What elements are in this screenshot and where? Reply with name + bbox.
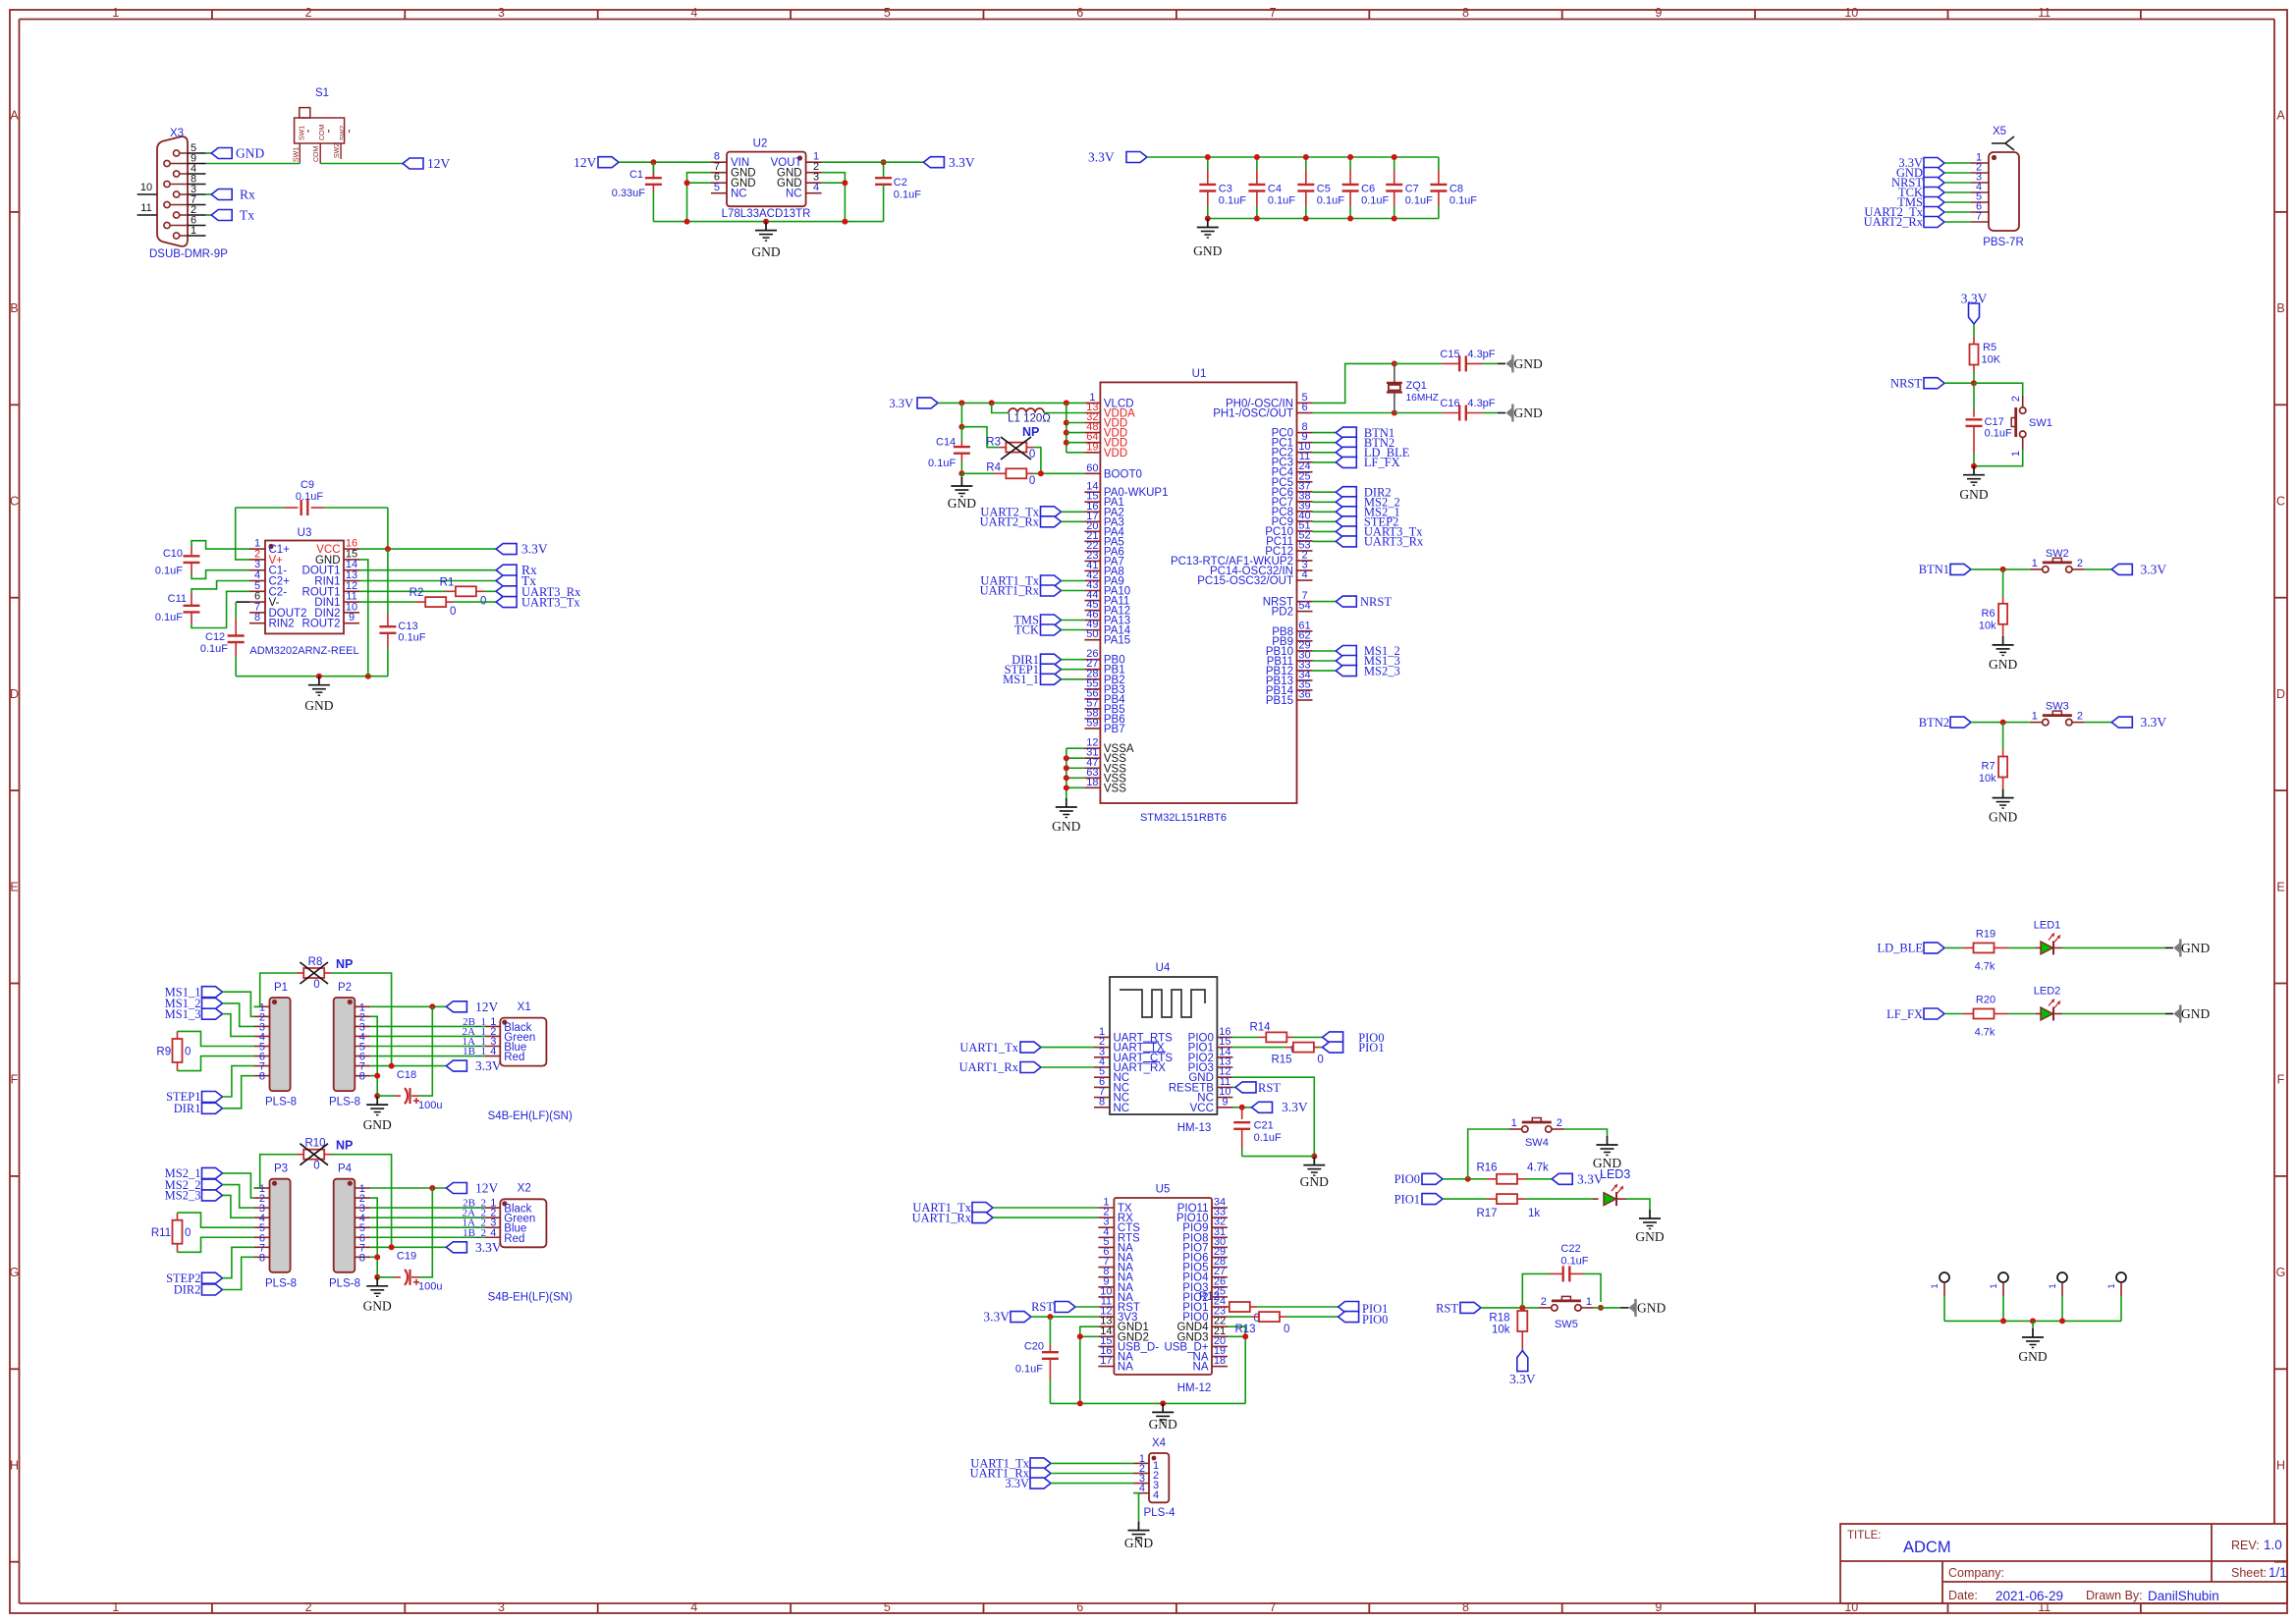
wire LED3 to ground bbox=[1617, 1198, 1627, 1200]
svg-text:C13: C13 bbox=[398, 621, 417, 632]
svg-text:PLS-8: PLS-8 bbox=[265, 1097, 297, 1109]
svg-text:R17: R17 bbox=[1476, 1208, 1497, 1219]
resistor R11 0 ohm bbox=[177, 1213, 179, 1220]
svg-text:BTN2: BTN2 bbox=[1919, 716, 1949, 730]
net port MS1_2 at PB10 bbox=[1313, 650, 1337, 652]
wire P2 pin4 to X1 pin2 bbox=[370, 1035, 484, 1037]
svg-text:RST: RST bbox=[1258, 1081, 1281, 1095]
ground symbol under U4 area bbox=[1313, 1157, 1315, 1165]
svg-text:2: 2 bbox=[2010, 396, 2022, 402]
svg-text:UART3_Tx: UART3_Tx bbox=[521, 596, 580, 610]
svg-text:RST: RST bbox=[1031, 1300, 1054, 1314]
svg-text:8: 8 bbox=[359, 1071, 365, 1083]
pushbutton SW5 bbox=[1539, 1307, 1552, 1309]
svg-text:PA15: PA15 bbox=[1104, 635, 1130, 647]
connector X3 DSUB-DMR-9P bbox=[149, 128, 228, 260]
net port 3.3V at U2 output bbox=[923, 157, 944, 168]
svg-text:0.1uF: 0.1uF bbox=[894, 189, 921, 201]
resistor R1 0 ohm on ROUT1 bbox=[359, 590, 445, 592]
svg-text:Drawn By:: Drawn By: bbox=[2086, 1589, 2143, 1602]
svg-text:5: 5 bbox=[884, 6, 891, 20]
svg-text:NRST: NRST bbox=[1360, 595, 1392, 609]
svg-text:HM-12: HM-12 bbox=[1177, 1382, 1212, 1394]
net port PIO0 right of R14 bbox=[1323, 1032, 1343, 1043]
wire RIN1 to Tx port bbox=[359, 580, 496, 582]
svg-text:0.1uF: 0.1uF bbox=[1560, 1256, 1588, 1268]
mounting hole 1 bbox=[1940, 1272, 1949, 1282]
header P2 PLS-8 bbox=[334, 998, 355, 1091]
svg-text:U1: U1 bbox=[1192, 368, 1207, 380]
svg-text:UART1_Rx: UART1_Rx bbox=[959, 1060, 1019, 1074]
resistor R12 0 ohm on U5 PIO1 bbox=[1222, 1306, 1228, 1308]
svg-text:ROUT2: ROUT2 bbox=[302, 619, 341, 630]
svg-text:DIR1: DIR1 bbox=[174, 1102, 201, 1115]
wire SW2 to 3.3V port bbox=[2085, 568, 2111, 570]
net port GND at X3 pin5 bbox=[206, 152, 212, 154]
net port 3.3V at P2 bbox=[446, 1060, 466, 1071]
resistor R13 0 ohm on U5 PIO0 bbox=[1228, 1316, 1251, 1318]
svg-text:C7: C7 bbox=[1405, 184, 1419, 195]
svg-text:S1: S1 bbox=[315, 87, 329, 99]
svg-text:COM: COM bbox=[319, 125, 326, 141]
svg-text:18: 18 bbox=[1214, 1355, 1226, 1367]
svg-text:0.33uF: 0.33uF bbox=[612, 188, 646, 199]
svg-text:1: 1 bbox=[2032, 558, 2038, 569]
svg-text:C: C bbox=[2276, 495, 2285, 509]
svg-text:100u: 100u bbox=[418, 1100, 442, 1111]
wire P1 pin1 to R8 left bbox=[254, 973, 297, 1006]
svg-text:6: 6 bbox=[1076, 6, 1083, 20]
connector X4 PLS-4 bbox=[1149, 1453, 1169, 1502]
svg-text:SW2: SW2 bbox=[2046, 548, 2069, 560]
capacitor C21 0.1uF bbox=[1241, 1108, 1243, 1119]
svg-text:SW1: SW1 bbox=[2029, 417, 2052, 429]
resistor R10 0 ohm not placed bbox=[297, 1154, 303, 1156]
svg-text:VDD: VDD bbox=[1104, 448, 1127, 460]
svg-text:17: 17 bbox=[1100, 1355, 1112, 1367]
svg-text:Red: Red bbox=[504, 1233, 524, 1245]
wire U5 GND4 GND3 to rail bbox=[1228, 1326, 1245, 1403]
wire P2 pin5 to X1 pin3 bbox=[370, 1046, 484, 1048]
svg-text:3.3V: 3.3V bbox=[949, 155, 975, 170]
svg-text:4: 4 bbox=[490, 1227, 496, 1239]
svg-text:STM32L151RBT6: STM32L151RBT6 bbox=[1140, 812, 1227, 824]
resistor R15 0 ohm on PIO1 bbox=[1232, 1047, 1285, 1049]
svg-text:2: 2 bbox=[305, 1600, 312, 1614]
GND power flag right of LED2 bbox=[2179, 1005, 2181, 1023]
svg-text:4.3pF: 4.3pF bbox=[1467, 349, 1495, 360]
svg-text:2: 2 bbox=[305, 6, 312, 20]
svg-text:GND: GND bbox=[236, 146, 264, 161]
wire DIR2 to P3 pin8 bbox=[223, 1257, 254, 1289]
svg-text:0: 0 bbox=[1284, 1324, 1289, 1335]
ground symbol under C3 bbox=[1207, 219, 1209, 228]
svg-text:ZQ1: ZQ1 bbox=[1406, 380, 1427, 392]
svg-text:MS2_3: MS2_3 bbox=[1364, 664, 1400, 677]
svg-text:H: H bbox=[10, 1459, 19, 1473]
svg-text:100u: 100u bbox=[418, 1281, 442, 1293]
svg-text:1B_1: 1B_1 bbox=[463, 1046, 486, 1057]
svg-text:10k: 10k bbox=[1492, 1325, 1510, 1336]
svg-text:PLS-4: PLS-4 bbox=[1144, 1507, 1176, 1519]
svg-text:0: 0 bbox=[1317, 1055, 1323, 1066]
resistor R6 10k bbox=[1998, 604, 2007, 624]
svg-text:U4: U4 bbox=[1156, 962, 1171, 974]
pin 10 stub of X3 bbox=[137, 193, 157, 195]
svg-text:PIO1: PIO1 bbox=[1394, 1193, 1420, 1207]
wire V- pin to C12 bbox=[236, 601, 249, 603]
svg-text:ADM3202ARNZ-REEL: ADM3202ARNZ-REEL bbox=[249, 645, 358, 657]
net port STEP2 at PC9 bbox=[1313, 520, 1337, 522]
GND rail for mounting holes bbox=[1944, 1320, 2121, 1322]
ground symbol under C14 bbox=[960, 473, 962, 479]
svg-text:COM: COM bbox=[313, 146, 320, 163]
wire R18 to 3.3V flag bbox=[1521, 1331, 1523, 1349]
svg-text:F: F bbox=[2277, 1073, 2285, 1087]
U4 right pins bbox=[1169, 1026, 1233, 1114]
svg-text:SW3: SW3 bbox=[2046, 701, 2069, 713]
svg-text:3.3V: 3.3V bbox=[2141, 562, 2167, 576]
svg-text:R4: R4 bbox=[986, 462, 1001, 474]
svg-text:Rx: Rx bbox=[240, 188, 255, 202]
svg-text:R12: R12 bbox=[1199, 1291, 1220, 1303]
resistor R5 10K bbox=[1970, 345, 1979, 365]
svg-text:SW4: SW4 bbox=[1525, 1137, 1549, 1149]
svg-text:GND: GND bbox=[2181, 1006, 2210, 1021]
wire BTN2 node down to R7 bbox=[2002, 723, 2004, 750]
wire U4 GND pin to ground bbox=[1232, 1077, 1314, 1156]
svg-text:7: 7 bbox=[1270, 6, 1277, 20]
svg-text:10k: 10k bbox=[1979, 620, 1996, 631]
svg-text:GND: GND bbox=[1052, 819, 1080, 834]
svg-text:U3: U3 bbox=[298, 527, 312, 539]
svg-text:SW5: SW5 bbox=[1555, 1319, 1578, 1330]
svg-text:LED1: LED1 bbox=[2034, 919, 2061, 931]
svg-text:MS1_3: MS1_3 bbox=[165, 1007, 201, 1021]
svg-text:R9: R9 bbox=[156, 1047, 171, 1058]
svg-text:NRST: NRST bbox=[1890, 377, 1922, 391]
wire P2 pin8 to ground net bbox=[370, 1076, 377, 1096]
wire P4 pin1 to 12V port bbox=[370, 1187, 446, 1189]
svg-text:UART2_Rx: UART2_Rx bbox=[980, 515, 1040, 529]
svg-text:UART1_Rx: UART1_Rx bbox=[980, 584, 1040, 598]
header P3 PLS-8 bbox=[270, 1179, 291, 1272]
svg-text:0: 0 bbox=[450, 606, 456, 618]
svg-text:R5: R5 bbox=[1983, 342, 1996, 353]
svg-text:R1: R1 bbox=[440, 576, 455, 588]
svg-text:0.1uF: 0.1uF bbox=[155, 612, 183, 623]
wire STEP2 to P3 pin7 bbox=[223, 1247, 254, 1277]
resistor R4 0 ohm on BOOT0 bbox=[961, 472, 994, 474]
svg-text:R3: R3 bbox=[986, 437, 1001, 449]
svg-text:1: 1 bbox=[1930, 1283, 1941, 1288]
wire C11 top to C2+ pin bbox=[191, 581, 249, 594]
svg-text:16MHZ: 16MHZ bbox=[1406, 393, 1439, 404]
ground symbol under P4 bbox=[376, 1277, 378, 1286]
net port UART3_Rx at PC11 bbox=[1313, 540, 1337, 542]
svg-text:12V: 12V bbox=[475, 1000, 499, 1014]
3.3V rail over C3-C8 bbox=[1147, 156, 1439, 158]
svg-text:1/1: 1/1 bbox=[2269, 1565, 2287, 1580]
wire BTN2 to SW3 bbox=[1971, 722, 2030, 724]
svg-text:P3: P3 bbox=[274, 1163, 288, 1175]
svg-text:DIR2: DIR2 bbox=[174, 1283, 201, 1297]
wire NRST node bbox=[1944, 382, 1974, 384]
svg-text:59: 59 bbox=[1086, 717, 1098, 729]
ground symbol under P2 bbox=[376, 1096, 378, 1105]
svg-text:PC15-OSC32/OUT: PC15-OSC32/OUT bbox=[1197, 575, 1293, 587]
svg-text:LED3: LED3 bbox=[1600, 1167, 1630, 1181]
U1 right pins bbox=[1171, 392, 1313, 707]
wire R3 to BOOT0 net bbox=[1034, 448, 1041, 474]
LED LED1 bbox=[2041, 942, 2053, 954]
svg-text:GND: GND bbox=[1989, 657, 2017, 672]
svg-text:NC: NC bbox=[731, 189, 747, 200]
svg-text:4: 4 bbox=[490, 1046, 496, 1057]
wire 3.3V to R5 bbox=[1973, 324, 1975, 337]
ground symbol under VSS bus bbox=[1066, 792, 1067, 798]
resistor R18 10k bbox=[1521, 1308, 1523, 1311]
wire NRST node down to C17 bbox=[1973, 383, 1975, 409]
svg-text:12V: 12V bbox=[574, 155, 597, 170]
net port Tx at X3 pin2 bbox=[206, 214, 212, 216]
wire PH0 to crystal node bbox=[1313, 363, 1394, 403]
svg-text:C6: C6 bbox=[1361, 184, 1375, 195]
svg-text:GND: GND bbox=[304, 698, 333, 713]
svg-text:ADCM: ADCM bbox=[1903, 1539, 1951, 1556]
svg-text:C22: C22 bbox=[1560, 1243, 1580, 1255]
wire P4 pin2 down to ground net bbox=[370, 1198, 377, 1257]
svg-text:0: 0 bbox=[313, 979, 319, 991]
svg-text:PBS-7R: PBS-7R bbox=[1983, 237, 2024, 248]
svg-text:GND: GND bbox=[1193, 243, 1222, 258]
capacitor C14 0.1uF bbox=[960, 427, 962, 441]
svg-text:3: 3 bbox=[498, 1600, 505, 1614]
antenna glyph inside U4 bbox=[1120, 990, 1205, 1017]
wire P4 pin3 to X2 pin1 bbox=[370, 1207, 484, 1209]
svg-text:12V: 12V bbox=[475, 1181, 499, 1196]
svg-text:4.7k: 4.7k bbox=[1975, 1027, 1995, 1039]
wire X3 pin9 to S1 SW1 bbox=[206, 163, 301, 165]
svg-text:GND: GND bbox=[2018, 1349, 2047, 1364]
svg-text:R14: R14 bbox=[1249, 1021, 1271, 1033]
svg-text:0.1uF: 0.1uF bbox=[1268, 195, 1295, 207]
net port PIO0 right of R13 bbox=[1339, 1312, 1359, 1323]
svg-text:2: 2 bbox=[2077, 558, 2083, 569]
ground symbol under X4 bbox=[1138, 1522, 1140, 1531]
wire SW5 to GND flag bbox=[1594, 1307, 1620, 1309]
svg-text:SW1: SW1 bbox=[299, 126, 305, 140]
net port DIR2 at PC6 bbox=[1313, 491, 1337, 493]
U5 right pins bbox=[1164, 1197, 1228, 1374]
wire R5 to NRST node bbox=[1973, 365, 1975, 372]
wire 12V to U2 VIN bbox=[619, 161, 711, 163]
wire P4 pin8 to ground net bbox=[370, 1257, 377, 1276]
svg-text:C3: C3 bbox=[1219, 184, 1232, 195]
net port MS2_3 at PB12 bbox=[1313, 670, 1337, 672]
svg-text:0: 0 bbox=[185, 1047, 191, 1058]
capacitor C19 100u polarized bbox=[377, 1276, 395, 1278]
net port 3.3V right of SW3 bbox=[2111, 717, 2132, 728]
svg-text:PIO1: PIO1 bbox=[1358, 1041, 1384, 1055]
capacitor C4 bbox=[1256, 157, 1258, 170]
svg-text:D: D bbox=[10, 687, 19, 701]
capacitor C5 bbox=[1305, 157, 1307, 170]
net port BTN1 at PC0 bbox=[1313, 432, 1337, 434]
svg-text:BTN1: BTN1 bbox=[1919, 563, 1949, 576]
svg-text:C2: C2 bbox=[894, 177, 907, 189]
resistor R20 4.7k bbox=[1974, 1009, 1995, 1019]
svg-text:0.1uF: 0.1uF bbox=[398, 632, 425, 644]
svg-text:GND: GND bbox=[363, 1117, 392, 1132]
svg-text:PIO0: PIO0 bbox=[1362, 1313, 1388, 1326]
ground symbol below R7 bbox=[2002, 789, 2004, 798]
svg-text:C15: C15 bbox=[1440, 349, 1459, 360]
svg-text:9: 9 bbox=[1655, 6, 1662, 20]
svg-text:C14: C14 bbox=[936, 437, 956, 449]
connector X1 S4B-EH bbox=[500, 1018, 546, 1066]
transceiver U3 ADM3202ARNZ-REEL bbox=[265, 541, 344, 634]
resistor R19 4.7k bbox=[1974, 943, 1995, 952]
svg-text:0.1uF: 0.1uF bbox=[1317, 195, 1344, 207]
svg-text:TCK: TCK bbox=[1014, 623, 1039, 637]
svg-text:0: 0 bbox=[185, 1227, 191, 1239]
net port NRST at pin7 bbox=[1313, 601, 1337, 603]
wire U2 VOUT to 3.3V port bbox=[822, 161, 924, 163]
svg-text:4: 4 bbox=[1139, 1483, 1145, 1494]
net port UART3_Tx bbox=[496, 597, 517, 608]
wire C14 node to R3 bbox=[961, 427, 999, 448]
wire R20 to LED2 bbox=[1995, 1013, 2008, 1015]
wire R6 to ground bbox=[2002, 624, 2004, 636]
svg-text:10: 10 bbox=[1844, 6, 1858, 20]
svg-text:8: 8 bbox=[254, 612, 260, 623]
wire P2 pin6 to X1 pin4 bbox=[370, 1055, 484, 1057]
capacitor C18 100u polarized bbox=[377, 1095, 395, 1097]
svg-text:0: 0 bbox=[1029, 475, 1035, 487]
crystal ZQ1 16MHZ bbox=[1394, 363, 1395, 382]
svg-text:4: 4 bbox=[1301, 569, 1307, 581]
net port 3.3V right of SW2 bbox=[2111, 564, 2132, 574]
resistor R3 0 ohm not placed bbox=[999, 447, 1007, 449]
svg-text:X2: X2 bbox=[518, 1183, 531, 1195]
svg-text:Company:: Company: bbox=[1948, 1566, 2004, 1580]
svg-text:10k: 10k bbox=[1979, 773, 1996, 784]
net port 3.3V right of U3 bbox=[496, 544, 517, 555]
U1 left pins bbox=[1084, 392, 1168, 794]
svg-text:NA: NA bbox=[1118, 1362, 1133, 1374]
inductor L1 120R on VDDA bbox=[992, 403, 1009, 412]
svg-text:0.1uF: 0.1uF bbox=[1449, 195, 1477, 207]
wire PIO0 up to SW4 bbox=[1468, 1129, 1509, 1179]
svg-text:P4: P4 bbox=[338, 1163, 353, 1175]
ground symbol right of SW4 bbox=[1607, 1136, 1609, 1145]
svg-text:9: 9 bbox=[349, 612, 355, 623]
svg-text:PLS-8: PLS-8 bbox=[265, 1277, 297, 1289]
wire R7 to ground bbox=[2002, 778, 2004, 789]
svg-text:Red: Red bbox=[504, 1052, 524, 1063]
svg-text:C17: C17 bbox=[1985, 416, 2004, 428]
svg-text:5: 5 bbox=[884, 1600, 891, 1614]
svg-text:GND: GND bbox=[1300, 1174, 1329, 1189]
svg-text:1: 1 bbox=[1586, 1296, 1592, 1308]
net port PIO1 right of R12 bbox=[1339, 1302, 1359, 1313]
svg-text:2: 2 bbox=[2077, 711, 2083, 723]
wire MS2_2 to P3 pin3 bbox=[223, 1185, 254, 1209]
svg-text:9: 9 bbox=[1655, 1600, 1662, 1614]
svg-text:C10: C10 bbox=[163, 548, 183, 560]
wire R4 to BOOT0 pin bbox=[1033, 472, 1084, 474]
svg-text:VCC: VCC bbox=[1190, 1103, 1214, 1114]
wire R9 top to P1 pin5 bbox=[178, 1031, 254, 1046]
ground symbol below R6 bbox=[2002, 636, 2004, 645]
GND rail under U3 bbox=[236, 676, 388, 677]
svg-text:PD2: PD2 bbox=[1272, 607, 1293, 619]
svg-text:GND: GND bbox=[363, 1299, 392, 1314]
GND power flag right of SW5 bbox=[1634, 1299, 1636, 1317]
wire RST node bbox=[1481, 1307, 1539, 1309]
svg-text:U2: U2 bbox=[753, 138, 768, 150]
svg-text:NP: NP bbox=[336, 957, 353, 971]
svg-text:3.3V: 3.3V bbox=[1509, 1372, 1536, 1386]
svg-text:6: 6 bbox=[1076, 1600, 1083, 1614]
svg-text:8: 8 bbox=[359, 1252, 365, 1264]
svg-text:GND: GND bbox=[1989, 810, 2017, 825]
svg-text:4: 4 bbox=[690, 1600, 697, 1614]
net port 3.3V below R18 bbox=[1517, 1351, 1528, 1372]
wire P2 pin1 to 12V port bbox=[370, 1005, 446, 1007]
svg-text:3.3V: 3.3V bbox=[2141, 715, 2167, 730]
wire NRST node to SW1 bbox=[1974, 383, 2023, 396]
svg-text:3.3V: 3.3V bbox=[1282, 1100, 1308, 1114]
wire MS1_3 to P1 pin4 bbox=[223, 1014, 254, 1037]
net port Tx bbox=[496, 575, 517, 586]
svg-text:C20: C20 bbox=[1024, 1341, 1044, 1353]
svg-text:3.3V: 3.3V bbox=[475, 1058, 502, 1073]
wire S1 COM to 12V port bbox=[320, 163, 403, 165]
wire P4 pin7 to 3.3V port bbox=[370, 1246, 446, 1248]
svg-text:0.1uF: 0.1uF bbox=[1361, 195, 1389, 207]
svg-text:10: 10 bbox=[1844, 1600, 1858, 1614]
wire P2 pin7 to 3.3V port bbox=[370, 1065, 446, 1067]
svg-text:1: 1 bbox=[112, 1600, 119, 1614]
wire MS2_1 to P3 pin2 bbox=[223, 1173, 254, 1198]
svg-text:A: A bbox=[2276, 109, 2285, 123]
svg-text:10: 10 bbox=[140, 182, 152, 193]
svg-text:C9: C9 bbox=[301, 479, 314, 491]
wire VDD bus vertical bbox=[1066, 403, 1067, 452]
svg-text:RIN2: RIN2 bbox=[269, 619, 295, 630]
resistor R2 0 ohm on DIN1 bbox=[359, 601, 415, 603]
wire R19 to LED1 bbox=[1995, 947, 2008, 948]
svg-text:C12: C12 bbox=[205, 631, 225, 643]
cross mark over R8 bbox=[300, 962, 328, 984]
cross mark over R3 bbox=[1001, 437, 1031, 460]
wire LED1 to GND flag bbox=[2053, 947, 2062, 948]
capacitor C6 bbox=[1349, 157, 1351, 170]
svg-text:C: C bbox=[10, 495, 19, 509]
ground symbol below C17 bbox=[1973, 466, 1975, 475]
GND power flag right of LED1 bbox=[2179, 939, 2181, 956]
capacitor C15 4.3pF bbox=[1394, 362, 1443, 364]
svg-text:C5: C5 bbox=[1317, 184, 1331, 195]
connector X2 S4B-EH bbox=[500, 1199, 546, 1247]
resistor R17 1k bbox=[1443, 1198, 1487, 1200]
svg-text:C18: C18 bbox=[397, 1069, 416, 1081]
header P4 PLS-8 bbox=[334, 1179, 355, 1272]
svg-text:0.1uF: 0.1uF bbox=[928, 458, 956, 469]
wire P2 pin3 to X1 pin1 bbox=[370, 1025, 484, 1027]
